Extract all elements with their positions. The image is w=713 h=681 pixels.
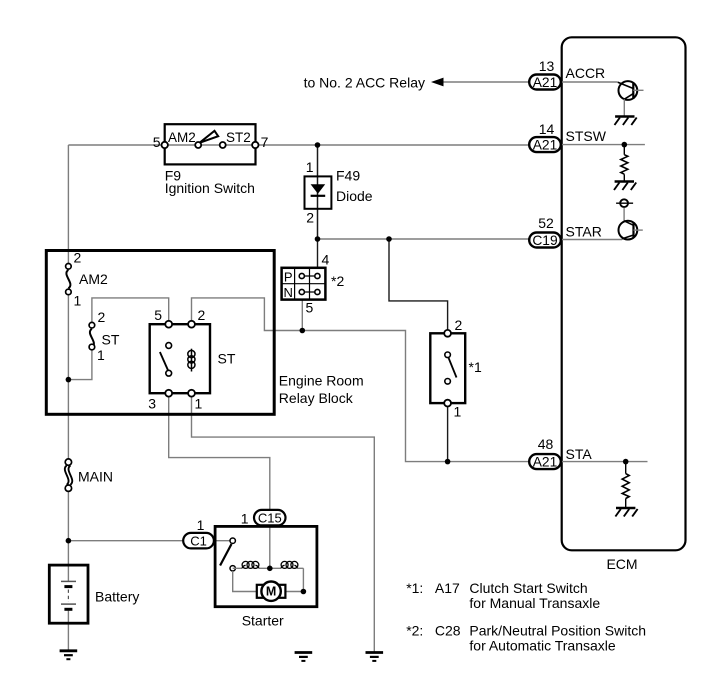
connector C15 oval <box>254 510 286 526</box>
svg-text:*2: *2 <box>331 273 344 289</box>
ground (relay coil) <box>366 653 384 661</box>
ignition switch pin 5 terminal <box>162 142 168 148</box>
connector A21 (STSW) <box>529 137 561 153</box>
wire relay pin 3 to C15 starter <box>169 393 270 568</box>
power node circle <box>616 199 633 220</box>
svg-text:for Manual Transaxle: for Manual Transaxle <box>469 595 600 611</box>
svg-text:M: M <box>266 585 276 599</box>
svg-text:1: 1 <box>74 293 82 309</box>
svg-text:A17: A17 <box>435 580 460 596</box>
N row contacts <box>299 289 304 294</box>
wire clutch switch top branch <box>389 239 448 333</box>
svg-text:5: 5 <box>154 307 162 323</box>
park/neutral position switch box <box>282 268 326 300</box>
svg-text:Engine Room: Engine Room <box>279 373 364 389</box>
ground (STA, hatched) <box>615 508 637 517</box>
svg-text:ACCR: ACCR <box>566 65 606 81</box>
ground (ACCR, hatched) <box>615 117 637 126</box>
svg-text:STA: STA <box>566 446 593 462</box>
junction ignition/diode <box>315 142 321 148</box>
svg-text:STSW: STSW <box>566 128 607 144</box>
connector A21 (STA) <box>529 454 561 470</box>
resistor STA <box>622 474 629 499</box>
arrow to No.2 ACC Relay <box>431 78 529 87</box>
svg-text:STAR: STAR <box>566 224 602 240</box>
wire ST fuse bottom to AM2 column <box>68 347 92 380</box>
ECM box <box>562 37 686 550</box>
svg-text:ST: ST <box>102 332 120 348</box>
ground (STSW, hatched) <box>614 182 636 191</box>
clutch pin 2 terminal <box>444 330 451 337</box>
wire P/N pin 4 <box>317 239 319 268</box>
junction ST fuse / AM2 column <box>66 377 72 383</box>
svg-text:A21: A21 <box>533 75 558 90</box>
svg-text:1: 1 <box>197 517 205 533</box>
starter motor <box>257 582 286 601</box>
diode F49 box <box>305 176 332 208</box>
clutch start switch box <box>430 333 465 403</box>
battery box <box>49 565 88 623</box>
svg-text:4: 4 <box>322 252 330 268</box>
fusible link MAIN <box>65 459 72 492</box>
svg-text:Diode: Diode <box>336 188 373 204</box>
svg-text:A21: A21 <box>533 138 558 153</box>
engine room relay block box <box>46 251 274 415</box>
svg-text:7: 7 <box>261 134 269 150</box>
wire battery feed vertical (AM2 / MAIN column) <box>67 145 69 651</box>
svg-text:2: 2 <box>74 250 82 266</box>
svg-text:ST: ST <box>218 351 236 367</box>
svg-text:2: 2 <box>98 309 106 325</box>
transistor STAR driver <box>619 221 643 240</box>
ignition switch AM2 contact <box>195 142 201 148</box>
connector C1 oval <box>183 533 214 549</box>
junction battery node <box>66 538 72 544</box>
relay pin 1 terminal <box>188 390 195 397</box>
svg-text:ECM: ECM <box>606 556 637 572</box>
wire ACCR inside ECM <box>562 81 618 83</box>
svg-text:ST2: ST2 <box>226 130 251 145</box>
svg-text:Battery: Battery <box>95 589 139 605</box>
svg-text:1: 1 <box>241 511 249 527</box>
wire diode branch <box>317 145 319 239</box>
wire ST relay coil to STA net <box>192 298 530 462</box>
clutch switch contacts and lever <box>445 352 457 384</box>
svg-text:C28: C28 <box>435 623 461 639</box>
P/N contact lines <box>302 276 318 292</box>
svg-text:for Automatic Transaxle: for Automatic Transaxle <box>469 638 616 654</box>
battery cells <box>61 581 76 609</box>
P row contacts <box>299 273 304 278</box>
ignition switch pin 7 terminal <box>252 142 258 148</box>
svg-text:C15: C15 <box>258 510 282 525</box>
svg-text:*2:: *2: <box>406 623 423 639</box>
clutch pin 1 terminal <box>444 400 451 407</box>
svg-text:A21: A21 <box>533 455 558 470</box>
junction C15/coils <box>267 566 273 572</box>
svg-text:AM2: AM2 <box>79 271 108 287</box>
starter coil 2 <box>281 561 298 568</box>
relay pin 3 terminal <box>165 390 172 397</box>
wire STA inside ECM <box>562 461 648 463</box>
ground (battery) <box>60 651 78 659</box>
svg-text:5: 5 <box>153 134 161 150</box>
wire STSW net: ignition row <box>68 144 529 146</box>
svg-text:AM2: AM2 <box>168 130 196 145</box>
wire ST fuse to relay pin 5 <box>92 298 169 325</box>
svg-text:2: 2 <box>455 317 463 333</box>
resistor STSW leads <box>623 145 625 181</box>
connector C19 (STAR) <box>529 233 561 249</box>
starter internal wires <box>233 568 304 591</box>
svg-text:14: 14 <box>539 121 555 137</box>
svg-text:Park/Neutral Position Switch: Park/Neutral Position Switch <box>469 623 646 639</box>
ignition switch F9 box <box>165 124 256 164</box>
svg-text:48: 48 <box>538 436 554 452</box>
svg-text:52: 52 <box>538 215 554 231</box>
svg-text:P: P <box>284 269 293 284</box>
wire clutch switch bottom <box>447 403 449 462</box>
wire STSW inside ECM <box>562 144 645 146</box>
junction STAR/clutch branch <box>386 236 392 242</box>
ground (starter) <box>295 653 313 661</box>
junction clutch/STA net <box>445 459 451 465</box>
wire STAR inside ECM <box>562 239 622 241</box>
wire STAR net <box>318 238 530 240</box>
svg-text:C1: C1 <box>190 533 207 548</box>
svg-text:C19: C19 <box>532 233 558 248</box>
wire P/N pin 5 <box>301 300 303 331</box>
svg-text:2: 2 <box>198 307 206 323</box>
svg-text:Relay Block: Relay Block <box>279 390 354 406</box>
svg-text:to No. 2 ACC Relay: to No. 2 ACC Relay <box>304 75 425 91</box>
svg-text:1: 1 <box>195 396 203 412</box>
svg-text:13: 13 <box>539 58 555 74</box>
svg-text:1: 1 <box>97 347 105 363</box>
resistor STA leads <box>625 462 627 508</box>
relay switch contacts <box>160 343 172 377</box>
junction STA resistor <box>623 459 629 465</box>
relay coil <box>188 349 195 372</box>
starter coil 1 <box>242 561 259 568</box>
svg-text:1: 1 <box>454 404 462 420</box>
svg-text:*1:: *1: <box>406 580 423 596</box>
junction motor/ground <box>301 589 307 595</box>
relay pin 5 terminal <box>165 321 172 328</box>
svg-text:N: N <box>284 285 293 300</box>
fuse ST <box>89 322 95 349</box>
junction PN5/coil net <box>300 328 306 334</box>
connector A21 (ACCR) <box>529 75 561 91</box>
svg-text:Ignition Switch: Ignition Switch <box>165 180 255 196</box>
svg-text:Clutch Start Switch: Clutch Start Switch <box>469 580 587 596</box>
starter solenoid switch <box>220 538 235 571</box>
wire battery to C1 <box>68 540 232 542</box>
svg-text:3: 3 <box>148 396 156 412</box>
diode symbol <box>311 184 326 196</box>
ignition switch ST2 contact <box>220 142 226 148</box>
resistor STSW <box>621 155 628 175</box>
svg-text:MAIN: MAIN <box>78 469 113 485</box>
svg-text:2: 2 <box>306 210 314 226</box>
relay pin 2 terminal <box>188 321 195 328</box>
ST relay box <box>150 324 210 393</box>
svg-text:1: 1 <box>306 159 314 175</box>
junction diode/STAR/PN4 <box>315 236 321 242</box>
fuse AM2 <box>66 264 72 295</box>
svg-text:5: 5 <box>306 300 314 316</box>
svg-text:Starter: Starter <box>242 613 284 629</box>
starter box <box>215 526 317 606</box>
svg-text:F49: F49 <box>336 168 360 184</box>
wire relay pin 1 to ground <box>192 393 375 652</box>
junction STSW resistor <box>622 142 628 148</box>
svg-text:*1: *1 <box>469 359 482 375</box>
transistor ACCR driver <box>618 81 644 116</box>
ignition switch lever <box>200 131 219 143</box>
